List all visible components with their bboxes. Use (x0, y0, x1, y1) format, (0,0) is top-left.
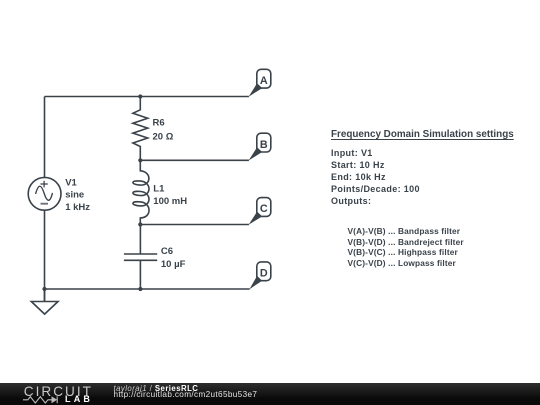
svg-text:L1: L1 (153, 184, 165, 195)
svg-text:D: D (260, 268, 268, 280)
svg-text:A: A (260, 75, 268, 87)
svg-text:100 mH: 100 mH (153, 196, 187, 207)
svg-text:1 kHz: 1 kHz (65, 202, 90, 213)
svg-text:10 µF: 10 µF (161, 259, 186, 270)
svg-text:C: C (260, 203, 268, 215)
svg-text:R6: R6 (153, 118, 165, 129)
svg-text:B: B (260, 139, 268, 151)
svg-text:C6: C6 (161, 246, 173, 257)
svg-text:sine: sine (65, 190, 84, 201)
svg-text:V1: V1 (65, 177, 77, 188)
svg-text:20 Ω: 20 Ω (153, 131, 174, 142)
